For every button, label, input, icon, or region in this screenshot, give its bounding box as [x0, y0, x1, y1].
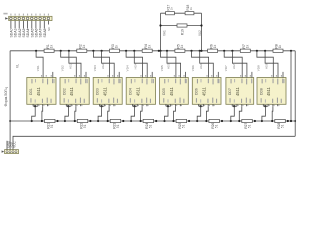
label DD3 input nets — [93, 63, 105, 71]
op-amp DD6 body (driver IC) — [192, 78, 221, 105]
node bus tap 14 — [256, 50, 258, 52]
wire DD6 bottom tie — [199, 105, 204, 107]
wire XP1 pin 3 — [18, 21, 20, 29]
label DD7 designator — [228, 88, 232, 95]
net label pin 4 — [22, 29, 26, 38]
node DD7 tie junction — [233, 105, 235, 107]
svg-text:51: 51 — [182, 124, 186, 128]
node DD5 staircase 1 landing — [163, 120, 165, 122]
svg-text:VD5: VD5 — [160, 65, 164, 71]
label DD6 designator — [195, 88, 199, 95]
label R2 — [79, 44, 87, 48]
node bus tap 6 — [125, 50, 127, 52]
label VL — [16, 64, 20, 68]
label DD8 type — [266, 86, 271, 96]
label DD8 bottom pin names — [261, 98, 282, 103]
node DD4 staircase 1 landing — [130, 120, 132, 122]
wire XP1 pin 8 — [39, 21, 41, 29]
wire top network left vertical — [160, 13, 162, 51]
label DD5 bottom pin names — [163, 98, 184, 103]
wire bus tap to DD3 pin b — [102, 51, 115, 78]
label DD4 top pin names — [131, 79, 154, 85]
node bus tap 15 — [264, 50, 266, 52]
node bus tap 13 — [231, 50, 233, 52]
node bus tap 12 — [223, 50, 225, 52]
label DD8 input nets — [257, 63, 269, 71]
svg-text:4511: 4511 — [202, 86, 207, 96]
wire XP1 pin 5 — [27, 21, 29, 29]
svg-text:4511: 4511 — [135, 86, 140, 96]
label R24 — [145, 122, 153, 128]
label DD3 bottom pin names — [97, 98, 118, 103]
wire DD5 staircase 2 — [174, 106, 176, 121]
wire XP1 pin 2 — [14, 21, 16, 29]
resistor R18 — [185, 12, 194, 15]
wire DD8 top pin stubs — [271, 72, 283, 78]
label R3 — [111, 44, 119, 48]
op-amp DD8 body (driver IC) — [257, 78, 286, 105]
svg-text:1k: 1k — [189, 7, 193, 11]
wire DD1 top pin stubs — [41, 72, 53, 78]
svg-text:DD8: DD8 — [259, 88, 263, 95]
wire XP1 pin 4 — [22, 21, 24, 29]
node DD8 tie junction — [264, 105, 266, 107]
connector XP1 pin numbers — [10, 14, 49, 16]
wire bus tap to DD4 pin a — [126, 51, 142, 78]
wire top network top rail — [161, 12, 202, 14]
node R24 right — [155, 120, 157, 122]
node bus tap 7 — [133, 50, 135, 52]
wire DD3 bottom tie — [100, 105, 105, 107]
label DD2 designator — [62, 88, 66, 95]
resistor R27 (bottom bus) — [242, 119, 253, 122]
label DD8 designator — [259, 88, 263, 95]
wire DD4 top pin stubs — [140, 72, 152, 78]
wire DD5 bottom pin stubs — [166, 104, 182, 106]
connector XP2 (4-pin, bottom left) — [5, 150, 19, 154]
svg-text:51: 51 — [149, 124, 153, 128]
wire top network middle rail — [161, 25, 202, 27]
label DD7 input nets — [224, 63, 236, 71]
svg-text:VD1: VD1 — [36, 65, 40, 71]
wire DD2 bottom pin stubs — [66, 104, 82, 106]
node bus tap 2 — [60, 50, 62, 52]
wire bus tap to DD2 pin a — [61, 51, 77, 78]
wire DD1 bottom tie — [33, 105, 38, 107]
label DD4 designator — [129, 88, 133, 95]
node DD5 tie junction — [167, 105, 169, 107]
svg-text:DD3: DD3 — [96, 88, 100, 95]
resistor R25 (bottom bus) — [176, 119, 187, 122]
wire left drop to XP2 — [9, 51, 11, 151]
wire DD8 staircase 2 — [271, 106, 274, 121]
svg-text:HG3: HG3 — [101, 63, 105, 69]
wire DD8 bottom tie — [263, 105, 268, 107]
svg-text:51: 51 — [215, 124, 219, 128]
svg-text:4511: 4511 — [69, 86, 74, 96]
wire DD4 staircase 1 — [131, 106, 135, 121]
node right feed landing — [290, 120, 292, 122]
wire DD1 staircase 1 — [32, 106, 36, 121]
svg-text:DD1: DD1 — [29, 88, 33, 95]
label XP2 pin2 net — [10, 141, 14, 148]
svg-text:VD8: VD8 — [257, 65, 261, 71]
wire XP1 pin 10 — [47, 21, 49, 25]
wire DD2 top pin stubs — [74, 72, 86, 78]
node R23 right — [122, 120, 124, 122]
svg-text:4511: 4511 — [266, 86, 271, 96]
connector XP1 (10-pin header, top left) — [9, 16, 52, 20]
svg-text:1k: 1k — [170, 7, 174, 11]
wire DD2 bottom tie — [66, 105, 71, 107]
node network left landing — [159, 50, 161, 52]
node R26 left — [205, 120, 207, 122]
node bus tap 9 — [166, 50, 168, 52]
label DD8 top pin names — [262, 79, 285, 85]
wire bus tap to DD5 pin b — [167, 51, 181, 78]
wire DD2 staircase 1 — [65, 106, 69, 121]
wire top supply bus — [10, 50, 295, 52]
label R7 — [242, 44, 250, 48]
node DD1 staircase 1 landing — [31, 120, 33, 122]
node bus tap 11 — [199, 50, 201, 52]
wire DD3 top pin stubs — [107, 72, 119, 78]
wire DD7 top pin stubs — [240, 72, 252, 78]
label net 50Hz (left edge) — [4, 86, 8, 106]
wire DD7 staircase 1 — [231, 106, 235, 121]
node DD6 tie junction — [200, 105, 202, 107]
op-amp DD7 body (driver IC) — [226, 78, 254, 105]
svg-text:DD2: DD2 — [62, 88, 66, 95]
wire bus tap to DD6 pin b — [200, 51, 214, 78]
svg-text:1k: 1k — [49, 44, 53, 48]
wire right feed drop — [290, 51, 292, 121]
resistor R7 (top bus) — [240, 49, 250, 52]
node R21 left — [41, 120, 43, 122]
node bus tap 4 — [92, 50, 94, 52]
label DD1 designator — [29, 88, 33, 95]
svg-text:51: 51 — [116, 124, 120, 128]
svg-text:1k: 1k — [213, 44, 217, 48]
node DD6 staircase 1 landing — [196, 120, 198, 122]
wire DD8 bottom pin stubs — [263, 104, 279, 106]
svg-text:NC: NC — [47, 27, 51, 31]
wire bus tap to DD4 pin b — [134, 51, 147, 78]
label DD2 top pin names — [65, 79, 88, 85]
wire bus tap to DD8 pin b — [265, 51, 278, 78]
svg-text:51: 51 — [50, 124, 54, 128]
svg-text:VD2: VD2 — [60, 65, 64, 71]
node bus tap 8 — [158, 50, 160, 52]
wire DD3 staircase 1 — [98, 106, 102, 121]
resistor R3 (top bus) — [110, 49, 120, 52]
label DD5 designator — [162, 88, 166, 95]
wire bus tap to DD8 pin a — [257, 51, 273, 78]
node R28 right — [287, 120, 289, 122]
label DD4 input nets — [126, 63, 138, 71]
label DD5 top pin names — [164, 79, 187, 85]
label DD4 type — [135, 86, 140, 96]
label net right — [198, 30, 202, 36]
svg-text:HG5: HG5 — [166, 63, 170, 69]
resistor R23 (bottom bus) — [110, 119, 121, 122]
wire DD7 staircase 2 — [239, 106, 242, 121]
resistor R5 (top bus) — [175, 49, 185, 52]
resistor R17 — [166, 12, 175, 15]
net label pin 5 — [26, 29, 30, 38]
node network left — [159, 24, 161, 26]
net label pin 10 — [47, 27, 51, 31]
node DD3 tie junction — [101, 105, 103, 107]
node R26 right — [221, 120, 223, 122]
label R18 — [186, 5, 193, 11]
svg-text:HG8: HG8 — [265, 63, 269, 69]
node top bus first tap — [35, 50, 37, 52]
svg-text:VA2: VA2 — [198, 30, 202, 36]
op-amp DD4 body (driver IC) — [126, 78, 155, 105]
wire right edge drop — [294, 51, 296, 137]
label DD1 top pin names — [31, 79, 54, 85]
wire DD6 bottom pin stubs — [199, 104, 215, 106]
svg-text:VD4: VD4 — [126, 65, 130, 71]
node bus tap 5 — [101, 50, 103, 52]
label R27 — [244, 122, 252, 128]
wire DD4 bottom pin stubs — [133, 104, 149, 106]
label DD2 bottom pin names — [64, 98, 85, 103]
resistor R2 (top bus) — [77, 49, 87, 52]
svg-text:1k: 1k — [246, 44, 250, 48]
svg-text:VA1: VA1 — [163, 30, 167, 36]
wire DD6 top pin stubs — [207, 72, 219, 78]
wire bus tap to DD6 pin a — [192, 51, 209, 78]
label R26 — [211, 122, 219, 128]
node R27 right — [254, 120, 256, 122]
label DD1 type — [36, 86, 41, 96]
label DD6 input nets — [191, 63, 203, 71]
connector XP1 designator arrow — [3, 13, 8, 20]
resistor R26 (bottom bus) — [209, 119, 220, 122]
svg-text:VD7: VD7 — [224, 65, 228, 71]
resistor R22 (bottom bus) — [77, 119, 88, 122]
net label pin 8 — [39, 29, 43, 38]
resistor R1 (top bus) — [44, 49, 54, 52]
node bus last tap — [290, 50, 292, 52]
svg-text:VD3: VD3 — [93, 65, 97, 71]
wire bus tap to DD5 pin a — [161, 51, 176, 78]
label R22 — [79, 122, 87, 128]
label R4 — [144, 44, 152, 48]
wire DD4 bottom tie — [133, 105, 138, 107]
net label pin 3 — [18, 29, 22, 38]
resistor R8 (top bus) — [273, 49, 283, 52]
wire DD2 staircase 2 — [75, 106, 76, 121]
wire XP1 pin 1 — [10, 21, 12, 29]
wire bus tap to DD1 pin — [36, 51, 43, 78]
svg-text:HG7: HG7 — [232, 63, 236, 69]
net label pin 9 — [43, 29, 47, 38]
node DD7 staircase 1 landing — [230, 120, 232, 122]
label R1 — [46, 44, 54, 48]
net label pin 1 — [10, 29, 14, 38]
op-amp DD1 body (driver IC) — [27, 78, 56, 105]
wire bottom bus — [10, 120, 295, 122]
label R17 — [167, 5, 174, 11]
svg-text:HG4: HG4 — [134, 63, 138, 69]
wire bottom return line — [13, 136, 295, 151]
svg-text:HG6: HG6 — [199, 63, 203, 69]
wire XP1 pin 9 — [43, 21, 45, 29]
label DD2 type — [69, 86, 74, 96]
wire DD6 staircase 2 — [206, 106, 208, 121]
label R25 — [178, 122, 186, 128]
wire DD1 staircase 2 — [41, 106, 44, 121]
resistor R6 (top bus) — [208, 49, 218, 52]
connector XP2 designator arrow — [2, 150, 5, 152]
svg-text:Форм.50Гц: Форм.50Гц — [4, 86, 8, 106]
wire DD3 staircase 2 — [108, 106, 109, 121]
node DD2 tie junction — [67, 105, 69, 107]
wire bus tap to DD7 pin b — [232, 51, 247, 78]
label R21 — [47, 122, 55, 128]
label DD4 bottom pin names — [130, 98, 151, 103]
svg-text:R19: R19 — [181, 29, 185, 35]
label DD7 top pin names — [231, 79, 253, 85]
svg-text:HG2: HG2 — [68, 63, 72, 69]
svg-text:4511: 4511 — [235, 86, 240, 96]
svg-text:4511: 4511 — [36, 86, 41, 96]
op-amp DD5 body (driver IC) — [160, 78, 189, 105]
svg-text:VL: VL — [16, 64, 20, 68]
svg-text:51: 51 — [280, 124, 284, 128]
svg-text:DD6: DD6 — [195, 88, 199, 95]
svg-text:51: 51 — [247, 124, 251, 128]
svg-text:DD5: DD5 — [162, 88, 166, 95]
svg-text:1k: 1k — [278, 44, 282, 48]
wire XP1 pin 6 — [31, 21, 33, 29]
node bus tap 3 — [68, 50, 70, 52]
resistor R19 — [177, 24, 187, 27]
label DD3 top pin names — [98, 79, 121, 85]
svg-text:DD4: DD4 — [129, 88, 133, 95]
wire DD3 bottom pin stubs — [100, 104, 116, 106]
label net left — [163, 30, 167, 36]
op-amp DD3 body (driver IC) — [93, 78, 122, 105]
wire XP1 pin 7 — [35, 21, 37, 29]
node R23 left — [107, 120, 109, 122]
node DD3 staircase 1 landing — [97, 120, 99, 122]
node R27 left — [238, 120, 240, 122]
node bus tap 10 — [190, 50, 192, 52]
resistor R21 (bottom bus) — [45, 119, 56, 122]
node DD2 staircase 1 landing — [64, 120, 66, 122]
node R28 left — [271, 120, 273, 122]
node bottom bus left end — [9, 120, 11, 122]
wire top network right vertical — [201, 13, 203, 51]
resistor R24 (bottom bus) — [143, 119, 154, 122]
label DD6 top pin names — [197, 79, 220, 85]
label R6 — [209, 44, 217, 48]
node bottom bus right end — [294, 120, 296, 122]
wire DD6 staircase 1 — [197, 106, 201, 121]
svg-text:4511: 4511 — [169, 86, 174, 96]
resistor R28 (bottom bus) — [275, 119, 286, 122]
node network right — [200, 24, 202, 26]
label DD3 designator — [96, 88, 100, 95]
wire bus tap to DD2 pin b — [69, 51, 81, 78]
label DD6 type — [202, 86, 207, 96]
node DD1 tie junction — [34, 105, 36, 107]
label R23 — [112, 122, 120, 128]
resistor R4 (top bus) — [142, 49, 152, 52]
svg-text:51: 51 — [83, 124, 87, 128]
wire XP2 pin 1 — [6, 141, 8, 150]
label DD1 bottom pin names — [30, 98, 51, 103]
node network right landing — [200, 50, 202, 52]
wire DD7 bottom pin stubs — [232, 104, 248, 106]
label R5 — [177, 44, 185, 48]
svg-text:1k: 1k — [82, 44, 86, 48]
wire DD5 staircase 1 — [165, 106, 169, 121]
net label pin 6 — [30, 29, 34, 38]
node R24 left — [140, 120, 142, 122]
wire bus tap to DD3 pin a — [93, 51, 109, 78]
wire DD8 staircase 1 — [262, 106, 266, 121]
svg-text:1k: 1k — [180, 44, 184, 48]
label R8 — [275, 44, 283, 48]
label R19 — [181, 29, 185, 35]
node R25 right — [188, 120, 190, 122]
label DD3 type — [102, 86, 107, 96]
label DD7 type — [235, 86, 240, 96]
wire DD7 bottom tie — [232, 105, 237, 107]
label DD7 bottom pin names — [230, 98, 251, 103]
label DD6 bottom pin names — [196, 98, 217, 103]
label XP2 pin3 net — [13, 140, 17, 147]
label DD5 input nets — [160, 63, 170, 71]
wire DD1 bottom pin stubs — [33, 104, 49, 106]
svg-text:1k: 1k — [115, 44, 119, 48]
node R25 left — [172, 120, 174, 122]
label DD1 input nets — [36, 65, 40, 71]
label R28 — [277, 122, 285, 128]
net label pin 2 — [14, 29, 18, 38]
wire DD4 staircase 2 — [141, 106, 143, 121]
label XP2 pin1 net — [6, 140, 10, 148]
svg-text:VCC: VCC — [13, 140, 17, 147]
node DD8 staircase 1 landing — [261, 120, 263, 122]
wire DD5 bottom tie — [166, 105, 171, 107]
net label pin 7 — [35, 29, 39, 38]
op-amp DD2 body (driver IC) — [60, 78, 89, 105]
svg-text:DD7: DD7 — [228, 88, 232, 95]
svg-text:1k: 1k — [147, 44, 151, 48]
node R22 right — [89, 120, 91, 122]
svg-text:4511: 4511 — [102, 86, 107, 96]
node R22 left — [74, 120, 76, 122]
wire DD5 top pin stubs — [174, 72, 186, 78]
node DD4 tie junction — [134, 105, 136, 107]
wire bus tap to DD7 pin a — [224, 51, 242, 78]
svg-text:VD6: VD6 — [191, 65, 195, 71]
label DD2 input nets — [60, 63, 72, 71]
node R21 right — [56, 120, 58, 122]
label DD5 type — [169, 86, 174, 96]
